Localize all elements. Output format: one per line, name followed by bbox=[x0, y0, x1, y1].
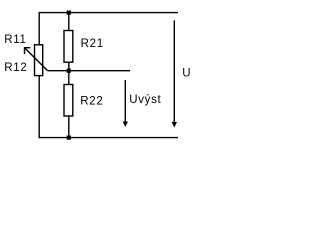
arrow Uvyst line bbox=[124, 80, 126, 123]
wiper arrowhead horizontal barb bbox=[24, 47, 30, 49]
wire output line bbox=[48, 70, 130, 72]
resistor R22 body bbox=[64, 85, 73, 117]
wire R22 top stub bbox=[68, 71, 70, 85]
arrow U head bbox=[172, 122, 177, 128]
svg-text:Uvýst: Uvýst bbox=[129, 94, 161, 106]
resistor R21 body bbox=[64, 31, 73, 63]
junction node top bbox=[67, 11, 71, 15]
potentiometer R11/R12 body bbox=[35, 45, 43, 76]
wire pot top lead bbox=[38, 13, 40, 45]
arrow U line bbox=[173, 20, 175, 123]
svg-text:U: U bbox=[182, 67, 191, 79]
junction node mid bbox=[67, 69, 71, 73]
svg-text:R11: R11 bbox=[4, 34, 26, 46]
svg-text:R12: R12 bbox=[4, 62, 27, 74]
wire top rail bbox=[39, 12, 179, 14]
svg-text:R22: R22 bbox=[80, 95, 103, 107]
wire pot bottom lead bbox=[38, 76, 40, 138]
wire bottom rail bbox=[39, 137, 179, 139]
arrow Uvyst head bbox=[123, 122, 128, 128]
wire R22 bottom stub bbox=[68, 116, 70, 138]
svg-text:R21: R21 bbox=[81, 38, 104, 50]
wire R21 top stub bbox=[68, 13, 70, 31]
wire R21 bottom stub bbox=[68, 62, 70, 70]
wiper arrowhead vertical barb bbox=[24, 47, 26, 54]
potentiometer wiper diagonal bbox=[25, 48, 48, 71]
junction node bottom bbox=[67, 136, 71, 140]
